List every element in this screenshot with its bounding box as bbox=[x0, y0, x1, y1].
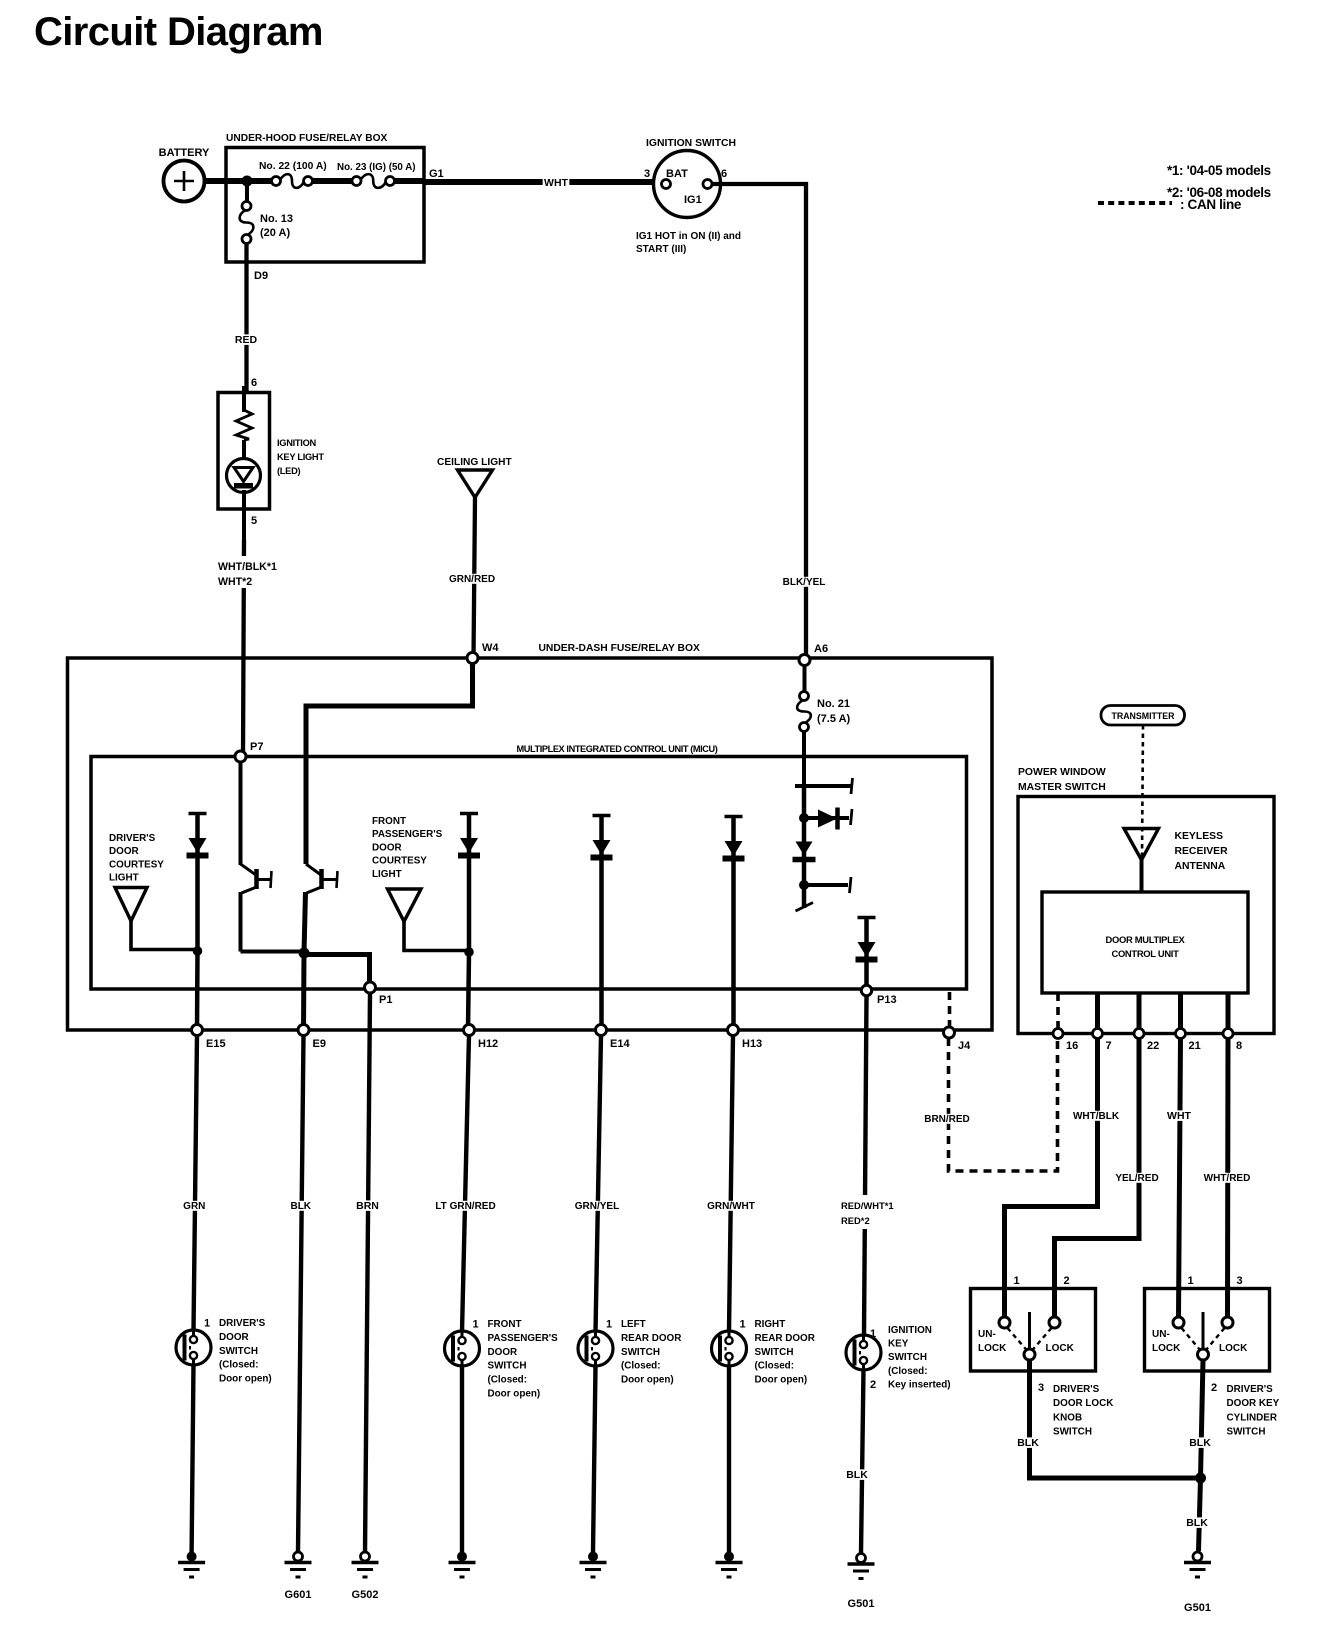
svg-text:(7.5 A): (7.5 A) bbox=[817, 713, 851, 725]
svg-text:3: 3 bbox=[1237, 1275, 1243, 1287]
svg-text:KEYLESS: KEYLESS bbox=[1175, 831, 1224, 842]
svg-text:DOOR: DOOR bbox=[219, 1332, 249, 1343]
svg-text:8: 8 bbox=[1236, 1040, 1242, 1052]
svg-text:Door open): Door open) bbox=[488, 1389, 541, 1400]
svg-text:SWITCH: SWITCH bbox=[1227, 1427, 1266, 1438]
svg-text:SWITCH: SWITCH bbox=[219, 1346, 258, 1357]
svg-text:IGNITION: IGNITION bbox=[888, 1325, 932, 1336]
svg-text:LOCK: LOCK bbox=[1219, 1343, 1248, 1354]
svg-text:G601: G601 bbox=[285, 1589, 312, 1601]
svg-text:LIGHT: LIGHT bbox=[372, 869, 402, 880]
svg-text:FRONT: FRONT bbox=[488, 1319, 522, 1330]
svg-text:BLK: BLK bbox=[1189, 1437, 1211, 1449]
svg-text:GRN/YEL: GRN/YEL bbox=[575, 1201, 619, 1212]
svg-text:DOOR KEY: DOOR KEY bbox=[1227, 1398, 1280, 1409]
svg-text:BLK/YEL: BLK/YEL bbox=[783, 577, 826, 588]
svg-text:SWITCH: SWITCH bbox=[1053, 1427, 1092, 1438]
svg-text:ANTENNA: ANTENNA bbox=[1175, 861, 1226, 872]
svg-text:DOOR LOCK: DOOR LOCK bbox=[1053, 1398, 1114, 1409]
svg-text:P1: P1 bbox=[379, 994, 392, 1006]
svg-text:(Closed:: (Closed: bbox=[888, 1366, 928, 1377]
svg-text:IG1 HOT in ON (II) and: IG1 HOT in ON (II) and bbox=[636, 231, 741, 242]
svg-text:SWITCH: SWITCH bbox=[488, 1361, 527, 1372]
svg-text:SWITCH: SWITCH bbox=[755, 1347, 794, 1358]
svg-text:LOCK: LOCK bbox=[978, 1343, 1007, 1354]
svg-text:H13: H13 bbox=[742, 1038, 762, 1050]
svg-text:BRN: BRN bbox=[356, 1200, 379, 1212]
svg-text:No. 13: No. 13 bbox=[260, 213, 293, 225]
svg-text:BRN/RED: BRN/RED bbox=[924, 1114, 970, 1125]
svg-text:3: 3 bbox=[1038, 1382, 1044, 1394]
svg-text:1: 1 bbox=[1014, 1275, 1020, 1287]
svg-text:BLK: BLK bbox=[846, 1469, 868, 1481]
svg-text:CONTROL UNIT: CONTROL UNIT bbox=[1111, 948, 1179, 959]
svg-text:MULTIPLEX INTEGRATED CONTROL U: MULTIPLEX INTEGRATED CONTROL UNIT (MICU) bbox=[517, 744, 718, 754]
svg-text:IG1: IG1 bbox=[684, 194, 702, 206]
svg-text:LOCK: LOCK bbox=[1152, 1343, 1181, 1354]
svg-text:BATTERY: BATTERY bbox=[159, 147, 210, 159]
svg-text:COURTESY: COURTESY bbox=[372, 856, 427, 867]
svg-text:*1: '04-05 models: *1: '04-05 models bbox=[1167, 163, 1271, 178]
svg-text:22: 22 bbox=[1147, 1040, 1159, 1052]
svg-text:6: 6 bbox=[251, 377, 257, 389]
svg-text:1: 1 bbox=[606, 1319, 612, 1331]
svg-text:DOOR: DOOR bbox=[372, 842, 402, 853]
svg-text:(LED): (LED) bbox=[277, 466, 300, 476]
svg-text:KEY: KEY bbox=[888, 1339, 909, 1350]
svg-text:E15: E15 bbox=[206, 1038, 226, 1050]
svg-text:Key inserted): Key inserted) bbox=[888, 1379, 951, 1390]
svg-text:UN-: UN- bbox=[1152, 1329, 1170, 1340]
svg-text:G1: G1 bbox=[429, 168, 444, 180]
svg-text:Door open): Door open) bbox=[621, 1375, 674, 1386]
svg-text:H12: H12 bbox=[478, 1038, 498, 1050]
svg-text:1: 1 bbox=[473, 1319, 479, 1331]
svg-text:D9: D9 bbox=[254, 270, 268, 282]
svg-text:RED/WHT*1: RED/WHT*1 bbox=[841, 1200, 894, 1211]
svg-text:6: 6 bbox=[721, 168, 727, 180]
svg-text:No. 21: No. 21 bbox=[817, 698, 850, 710]
svg-text:(Closed:: (Closed: bbox=[755, 1361, 795, 1372]
svg-text:WHT/BLK: WHT/BLK bbox=[1073, 1111, 1120, 1122]
svg-text:BLK: BLK bbox=[1017, 1437, 1039, 1449]
svg-text:21: 21 bbox=[1189, 1040, 1201, 1052]
svg-text:3: 3 bbox=[644, 168, 650, 180]
svg-text:WHT: WHT bbox=[1167, 1110, 1191, 1122]
svg-text:GRN/WHT: GRN/WHT bbox=[707, 1201, 755, 1212]
svg-text:KNOB: KNOB bbox=[1053, 1412, 1082, 1423]
svg-text:UNDER-HOOD FUSE/RELAY BOX: UNDER-HOOD FUSE/RELAY BOX bbox=[226, 133, 388, 144]
svg-text:BAT: BAT bbox=[666, 168, 688, 180]
svg-text:DOOR: DOOR bbox=[109, 846, 139, 857]
svg-text:1: 1 bbox=[1188, 1275, 1194, 1287]
svg-text:Circuit Diagram: Circuit Diagram bbox=[34, 10, 323, 54]
svg-text:GRN: GRN bbox=[183, 1201, 205, 1212]
svg-text:1: 1 bbox=[740, 1319, 746, 1331]
svg-text:G501: G501 bbox=[1184, 1602, 1211, 1614]
svg-text:No. 23 (IG) (50 A): No. 23 (IG) (50 A) bbox=[337, 162, 416, 173]
svg-text:BLK: BLK bbox=[1186, 1517, 1208, 1529]
svg-text:1: 1 bbox=[204, 1318, 210, 1330]
svg-text:G502: G502 bbox=[352, 1589, 379, 1601]
svg-text:LIGHT: LIGHT bbox=[109, 873, 139, 884]
svg-text:MASTER SWITCH: MASTER SWITCH bbox=[1018, 782, 1106, 793]
svg-text:POWER WINDOW: POWER WINDOW bbox=[1018, 767, 1106, 778]
svg-text:BLK: BLK bbox=[290, 1201, 311, 1212]
svg-text:TRANSMITTER: TRANSMITTER bbox=[1111, 711, 1175, 721]
svg-text:KEY LIGHT: KEY LIGHT bbox=[277, 452, 324, 462]
svg-text:P7: P7 bbox=[250, 741, 263, 753]
svg-text:P13: P13 bbox=[877, 994, 897, 1006]
svg-text:(Closed:: (Closed: bbox=[488, 1375, 528, 1386]
svg-text:G501: G501 bbox=[848, 1598, 875, 1610]
svg-text:REAR DOOR: REAR DOOR bbox=[621, 1333, 681, 1344]
svg-text:IGNITION: IGNITION bbox=[277, 438, 317, 448]
svg-text:5: 5 bbox=[251, 515, 257, 527]
svg-text:DRIVER'S: DRIVER'S bbox=[109, 833, 156, 844]
svg-text:16: 16 bbox=[1066, 1040, 1078, 1052]
svg-text:WHT: WHT bbox=[544, 177, 568, 189]
svg-text:CEILING LIGHT: CEILING LIGHT bbox=[437, 457, 512, 468]
svg-text:RED*2: RED*2 bbox=[841, 1215, 870, 1226]
svg-text:PASSENGER'S: PASSENGER'S bbox=[488, 1333, 559, 1344]
svg-text:LOCK: LOCK bbox=[1046, 1343, 1075, 1354]
svg-text:DRIVER'S: DRIVER'S bbox=[219, 1318, 266, 1329]
svg-text:RED: RED bbox=[235, 334, 258, 346]
svg-text:DRIVER'S: DRIVER'S bbox=[1227, 1384, 1274, 1395]
svg-text:2: 2 bbox=[1211, 1382, 1217, 1394]
svg-text:START (III): START (III) bbox=[636, 244, 686, 255]
svg-text:DOOR MULTIPLEX: DOOR MULTIPLEX bbox=[1106, 934, 1186, 945]
svg-text:(20 A): (20 A) bbox=[260, 227, 290, 239]
svg-text:YEL/RED: YEL/RED bbox=[1115, 1173, 1158, 1184]
svg-text:2: 2 bbox=[1064, 1275, 1070, 1287]
svg-text:DRIVER'S: DRIVER'S bbox=[1053, 1384, 1100, 1395]
svg-text:: CAN line: : CAN line bbox=[1180, 197, 1242, 212]
svg-text:WHT*2: WHT*2 bbox=[218, 576, 252, 588]
svg-text:No. 22 (100 A): No. 22 (100 A) bbox=[259, 161, 327, 172]
svg-text:LEFT: LEFT bbox=[621, 1319, 646, 1330]
svg-text:WHT/RED: WHT/RED bbox=[1204, 1173, 1251, 1184]
svg-text:E9: E9 bbox=[313, 1038, 326, 1050]
svg-text:COURTESY: COURTESY bbox=[109, 859, 164, 870]
svg-text:RIGHT: RIGHT bbox=[755, 1319, 786, 1330]
svg-text:Door open): Door open) bbox=[219, 1374, 272, 1385]
svg-text:CYLINDER: CYLINDER bbox=[1227, 1412, 1277, 1423]
svg-text:WHT/BLK*1: WHT/BLK*1 bbox=[218, 561, 277, 573]
svg-text:1: 1 bbox=[870, 1328, 876, 1340]
svg-text:(Closed:: (Closed: bbox=[219, 1360, 259, 1371]
svg-text:UNDER-DASH FUSE/RELAY BOX: UNDER-DASH FUSE/RELAY BOX bbox=[539, 643, 700, 654]
svg-text:DOOR: DOOR bbox=[488, 1347, 518, 1358]
svg-text:SWITCH: SWITCH bbox=[621, 1347, 660, 1358]
svg-text:2: 2 bbox=[870, 1379, 876, 1391]
svg-text:PASSENGER'S: PASSENGER'S bbox=[372, 829, 443, 840]
svg-text:REAR DOOR: REAR DOOR bbox=[755, 1333, 815, 1344]
svg-text:Door open): Door open) bbox=[755, 1375, 808, 1386]
svg-text:W4: W4 bbox=[482, 642, 499, 654]
svg-text:FRONT: FRONT bbox=[372, 816, 406, 827]
svg-text:J4: J4 bbox=[958, 1040, 971, 1052]
svg-text:UN-: UN- bbox=[978, 1329, 996, 1340]
svg-text:GRN/RED: GRN/RED bbox=[449, 574, 495, 585]
svg-text:SWITCH: SWITCH bbox=[888, 1352, 927, 1363]
svg-text:RECEIVER: RECEIVER bbox=[1175, 846, 1229, 857]
svg-text:A6: A6 bbox=[814, 643, 828, 655]
svg-text:E14: E14 bbox=[610, 1038, 630, 1050]
svg-text:(Closed:: (Closed: bbox=[621, 1361, 661, 1372]
svg-text:LT GRN/RED: LT GRN/RED bbox=[435, 1201, 495, 1212]
svg-text:7: 7 bbox=[1106, 1040, 1112, 1052]
svg-text:IGNITION SWITCH: IGNITION SWITCH bbox=[646, 138, 736, 149]
